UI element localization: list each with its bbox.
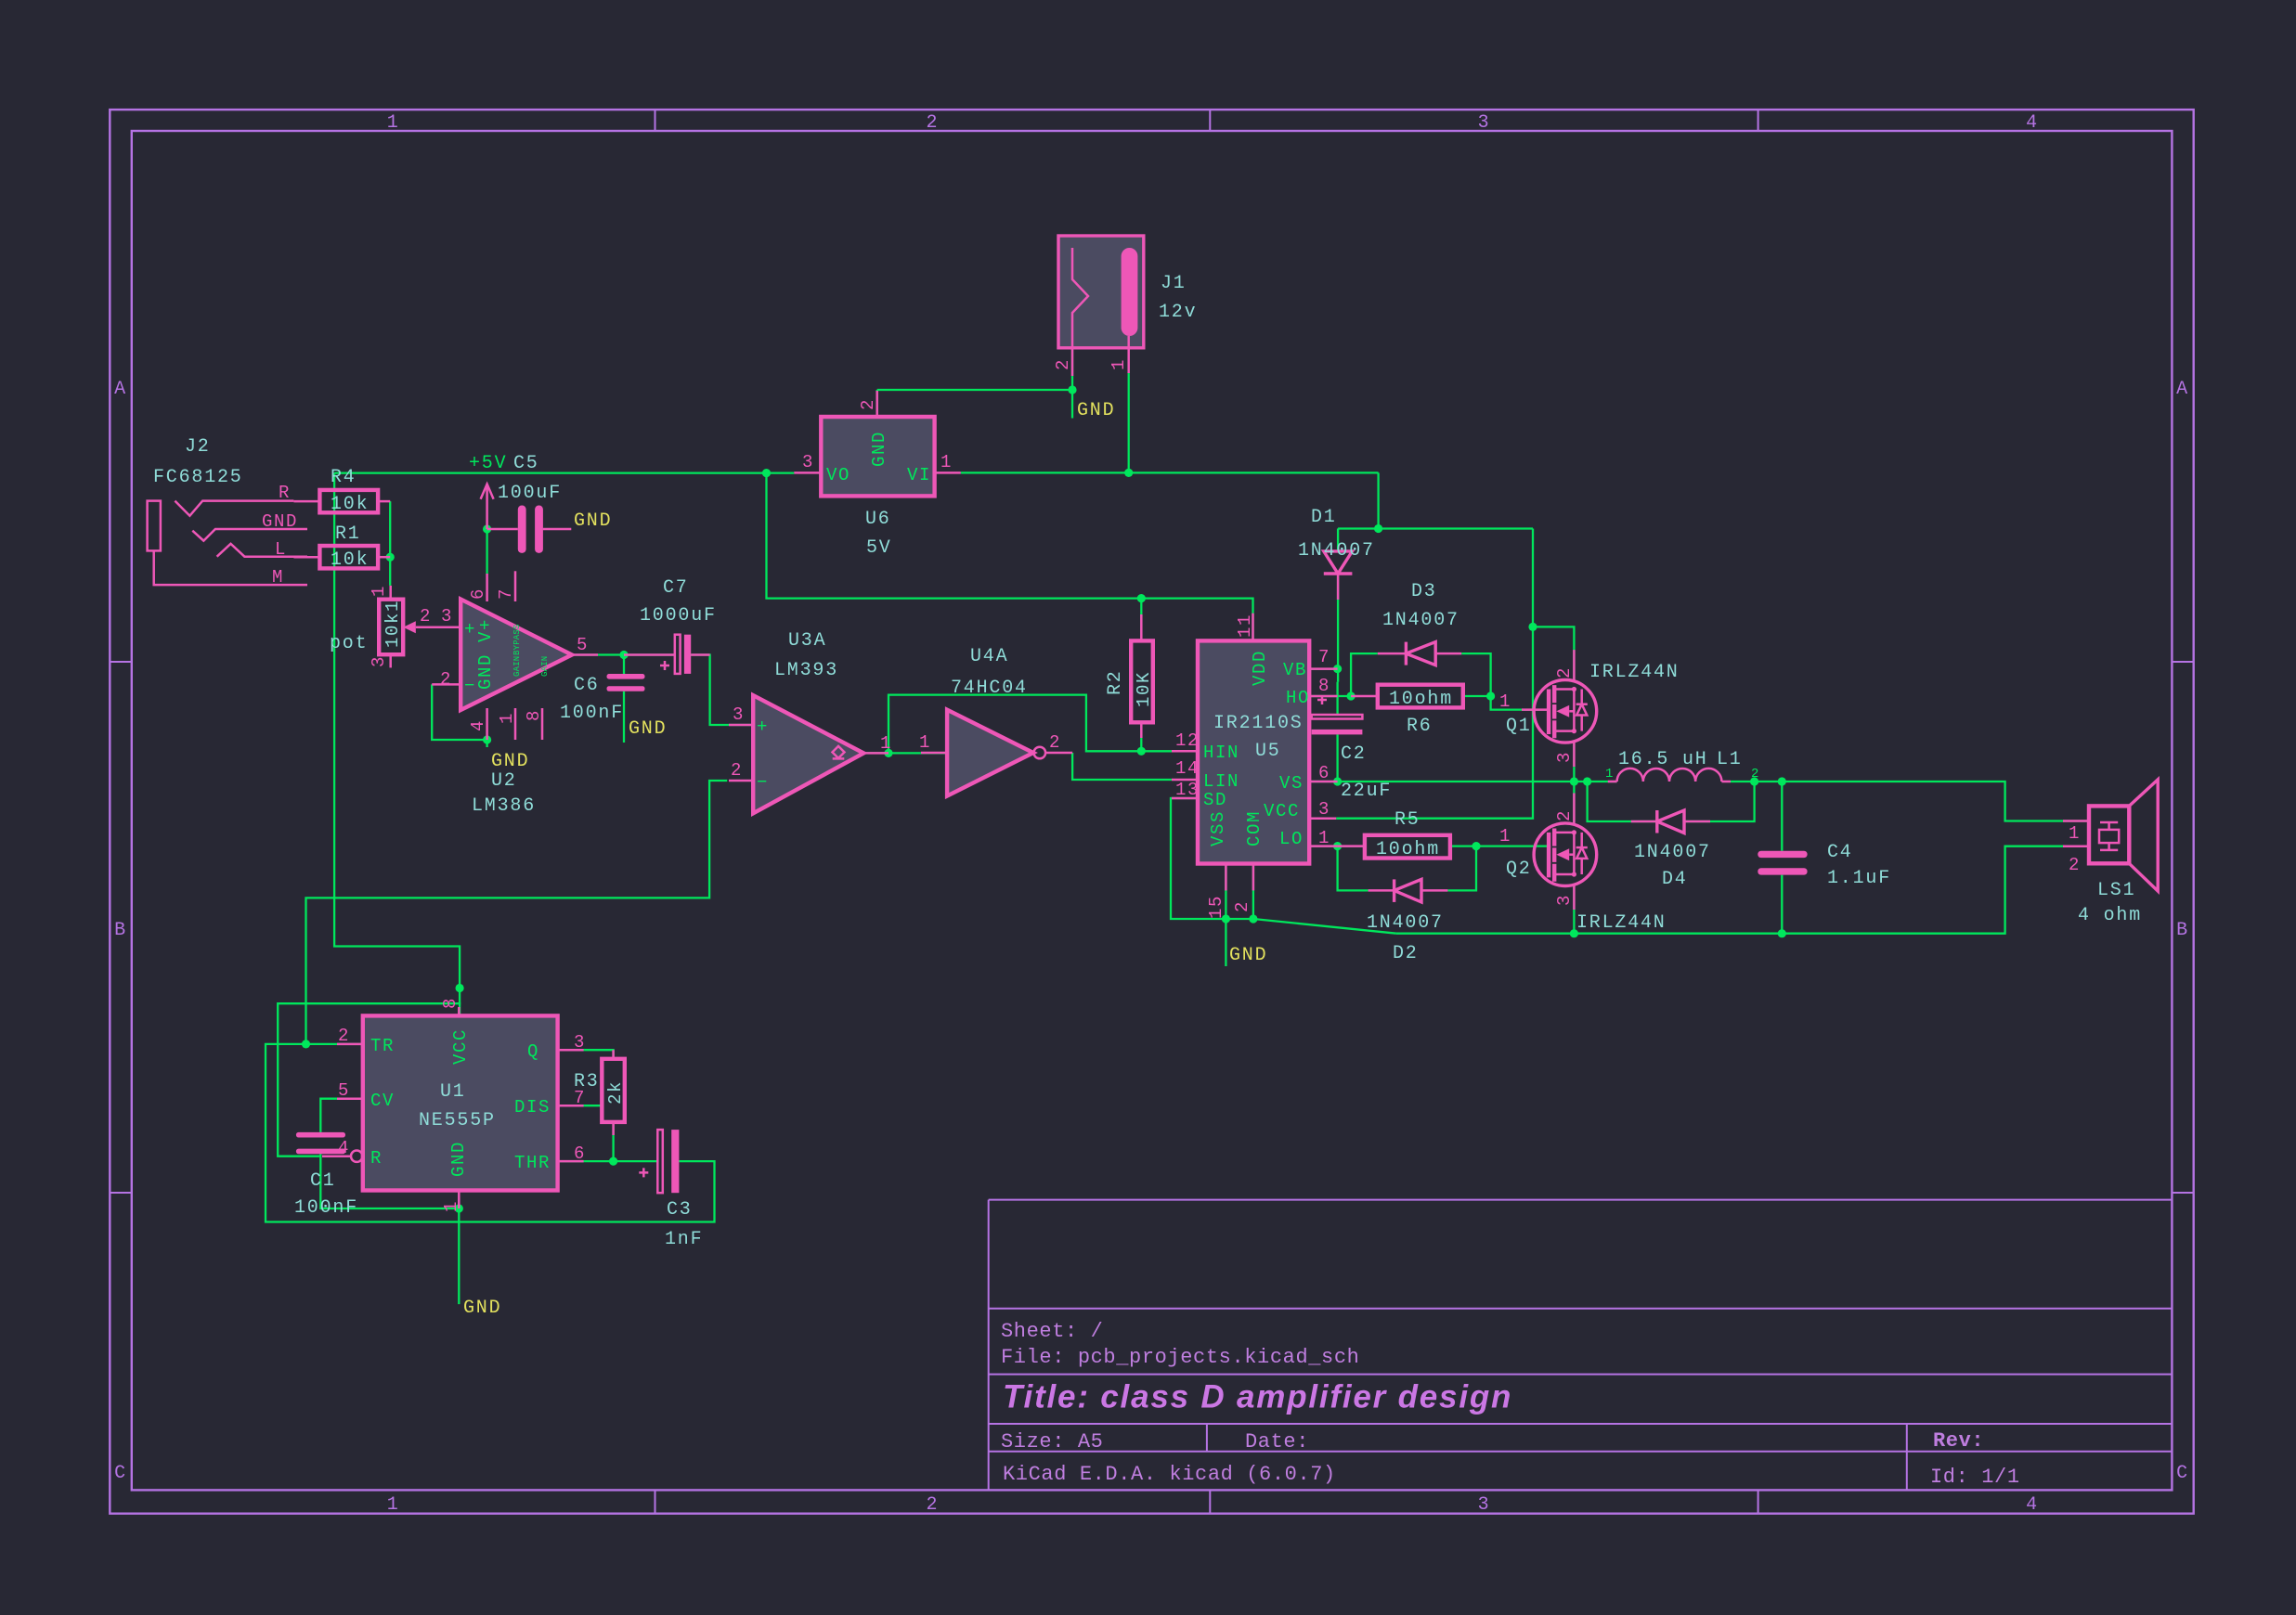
wire SD down to ground rail <box>1171 798 1253 919</box>
svg-text:8: 8 <box>1318 676 1330 696</box>
svg-text:1N4007: 1N4007 <box>1367 912 1444 934</box>
svg-text:1: 1 <box>2069 823 2081 844</box>
svg-text:2: 2 <box>420 606 432 627</box>
svg-text:BYPASS: BYPASS <box>512 624 522 655</box>
title block lines <box>989 1200 2173 1491</box>
svg-text:Rev:: Rev: <box>1933 1429 1984 1453</box>
wire C6 bottom stub <box>623 691 625 743</box>
svg-text:D3: D3 <box>1411 581 1437 602</box>
svg-text:7: 7 <box>496 588 516 600</box>
svg-text:pot: pot <box>330 633 368 654</box>
svg-text:2: 2 <box>1053 358 1073 370</box>
svg-text:2: 2 <box>731 760 743 781</box>
capacitor C5 <box>487 506 572 553</box>
svg-text:J2: J2 <box>185 436 211 458</box>
svg-text:U1: U1 <box>440 1081 466 1103</box>
junction J1 pin1 VI <box>1124 469 1133 477</box>
svg-text:D2: D2 <box>1393 943 1419 964</box>
svg-text:U3A: U3A <box>788 630 826 652</box>
svg-text:11: 11 <box>1235 614 1255 638</box>
junction R2 top <box>1137 594 1146 602</box>
svg-text:100nF: 100nF <box>560 703 624 724</box>
svg-text:Q1: Q1 <box>1506 716 1532 737</box>
svg-text:VB: VB <box>1283 660 1307 680</box>
wire U2 pin2 loop to GND <box>432 684 486 747</box>
wire C4 bottom stub <box>1781 875 1783 934</box>
wire D2 right up to gate node <box>1447 846 1476 891</box>
svg-text:−: − <box>757 772 769 793</box>
svg-text:2: 2 <box>1232 900 1252 912</box>
svg-text:3: 3 <box>574 1032 586 1053</box>
svg-text:U6: U6 <box>865 509 891 530</box>
wire THR pin to C3 <box>558 1160 658 1162</box>
svg-text:1N4007: 1N4007 <box>1298 540 1375 562</box>
svg-text:1: 1 <box>441 1200 461 1212</box>
wire 12V corner down <box>1377 472 1379 528</box>
junction VSS ground <box>1222 914 1230 923</box>
svg-text:10K: 10K <box>1134 671 1154 707</box>
svg-text:1: 1 <box>940 452 953 472</box>
junction +5V C5 <box>483 524 491 533</box>
svg-text:3: 3 <box>369 655 389 667</box>
svg-text:HO: HO <box>1286 688 1310 708</box>
svg-text:U4A: U4A <box>970 646 1008 667</box>
svg-text:TR: TR <box>370 1036 395 1056</box>
svg-text:2: 2 <box>2069 855 2081 875</box>
wire 12V to Q1 drain <box>1533 627 1574 679</box>
svg-text:R2: R2 <box>1105 669 1126 695</box>
svg-text:C4: C4 <box>1827 842 1853 863</box>
wire gate node to Q1 gate <box>1491 696 1550 710</box>
svg-text:GAIN: GAIN <box>540 656 550 677</box>
resistor R5 <box>1338 835 1450 860</box>
wire D1 top stub <box>1337 529 1339 551</box>
diode D3 1N4007 <box>1378 642 1461 665</box>
wire U6 GND pin stub <box>876 390 878 417</box>
svg-text:7: 7 <box>1318 647 1330 667</box>
svg-text:GND: GND <box>475 653 496 690</box>
svg-text:GND: GND <box>448 1141 469 1177</box>
junction 12V corner <box>1374 524 1382 533</box>
wire VCC pin stub <box>1309 818 1336 820</box>
wire C2 bottom stub <box>1336 734 1338 782</box>
svg-text:1: 1 <box>387 1494 400 1516</box>
svg-text:3: 3 <box>1318 799 1330 820</box>
svg-text:C2: C2 <box>1341 743 1367 765</box>
svg-text:L: L <box>275 539 287 560</box>
wire VI to J1 and 12V corner <box>961 472 1379 473</box>
svg-text:10k: 10k <box>331 549 369 571</box>
wire +5V rail down to U1 VCC <box>334 473 460 1017</box>
wire VS to D4 <box>1588 782 1657 821</box>
svg-text:C7: C7 <box>663 577 689 599</box>
svg-text:D4: D4 <box>1662 869 1688 890</box>
wire LO pin to R5 <box>1309 845 1365 846</box>
wire SD pin stub <box>1171 797 1198 799</box>
svg-text:3: 3 <box>802 452 814 472</box>
junction VS D4 <box>1583 777 1591 785</box>
junction C4 bottom rail <box>1778 929 1786 937</box>
svg-text:3: 3 <box>1554 751 1575 763</box>
svg-text:4: 4 <box>2026 1494 2039 1516</box>
border frame inner <box>132 131 2173 1490</box>
wire R2 bottom to HIN <box>1140 722 1142 751</box>
timer U1 NE555P <box>322 1007 584 1208</box>
svg-text:6: 6 <box>574 1143 586 1164</box>
svg-text:GND: GND <box>463 1298 501 1319</box>
svg-text:COM: COM <box>1244 810 1265 846</box>
svg-text:5V: 5V <box>866 537 892 559</box>
wire D3 right down to gate node <box>1461 653 1490 696</box>
svg-text:2: 2 <box>1554 809 1575 821</box>
frame column ticks bottom <box>655 1490 1758 1513</box>
svg-text:CV: CV <box>370 1091 395 1111</box>
svg-text:1: 1 <box>1499 691 1511 712</box>
svg-text:GND: GND <box>1229 945 1267 966</box>
svg-text:14: 14 <box>1175 758 1200 779</box>
wire U4A out to LIN <box>1072 753 1172 780</box>
resistor R6 <box>1351 685 1463 710</box>
regulator U6 5V <box>794 391 961 496</box>
svg-text:1: 1 <box>369 585 389 597</box>
svg-text:J1: J1 <box>1161 273 1187 294</box>
svg-text:R4: R4 <box>331 467 357 488</box>
wire C1 bottom to GND rail <box>320 1154 459 1208</box>
svg-text:GND: GND <box>491 751 529 772</box>
svg-text:LM386: LM386 <box>472 795 536 817</box>
svg-text:C1: C1 <box>310 1170 336 1192</box>
wire VSS pin down <box>1225 864 1226 920</box>
svg-text:6: 6 <box>468 588 488 600</box>
wire TR to C3 right <box>266 1044 715 1222</box>
svg-text:1: 1 <box>919 732 931 753</box>
svg-text:LM393: LM393 <box>774 660 838 681</box>
wire Q2 source down <box>1573 886 1575 934</box>
svg-text:R: R <box>279 483 291 503</box>
svg-text:5: 5 <box>338 1080 350 1101</box>
diode D4 1N4007 <box>1631 810 1710 833</box>
svg-text:2: 2 <box>1751 767 1759 782</box>
power symbol +5V <box>481 484 494 530</box>
svg-text:10ohm: 10ohm <box>1389 689 1453 710</box>
svg-text:VS: VS <box>1279 773 1304 794</box>
svg-text:1000uF: 1000uF <box>640 605 717 627</box>
svg-text:THR: THR <box>514 1153 551 1173</box>
junction L1 out C4 <box>1778 777 1786 785</box>
svg-text:10ohm: 10ohm <box>1376 839 1440 860</box>
svg-text:Sheet: /: Sheet: / <box>1001 1320 1103 1343</box>
svg-text:5: 5 <box>577 635 589 655</box>
svg-text:IRLZ44N: IRLZ44N <box>1589 662 1680 683</box>
wire +5V to U2 pin6 <box>486 529 487 574</box>
wire D4 right to L1 out <box>1684 782 1755 821</box>
svg-text:1: 1 <box>387 112 400 134</box>
svg-text:+5V: +5V <box>469 453 507 474</box>
wire VB pin stub <box>1309 667 1337 669</box>
svg-text:4: 4 <box>338 1138 350 1158</box>
svg-text:C6: C6 <box>574 675 600 696</box>
diode D1 1N4007 <box>1324 551 1353 600</box>
wire +5V rail to VO <box>334 472 794 473</box>
wire HO pin to R6 <box>1309 695 1351 697</box>
svg-text:R5: R5 <box>1394 809 1420 831</box>
svg-text:3: 3 <box>441 606 453 627</box>
wire U1 GND label stub <box>458 1208 460 1304</box>
svg-text:1: 1 <box>1109 358 1129 370</box>
svg-text:GAIN: GAIN <box>512 656 522 677</box>
junction L1 out D4 <box>1750 777 1758 785</box>
svg-text:Date:: Date: <box>1245 1430 1309 1453</box>
svg-text:Title: class D amplifier desig: Title: class D amplifier design <box>1003 1379 1512 1415</box>
wire D1 bottom to VB C2 <box>1337 574 1339 682</box>
svg-text:R: R <box>370 1148 383 1169</box>
wire Q out to R3 <box>558 1050 614 1059</box>
capacitor C6 <box>607 674 645 691</box>
wire DIS pin stub <box>583 1105 602 1106</box>
svg-text:2: 2 <box>858 398 878 410</box>
svg-text:Q2: Q2 <box>1506 859 1532 880</box>
speaker LS1 <box>2063 780 2158 891</box>
wire R5 right to Q2 gate <box>1450 845 1549 846</box>
capacitor C3 polarized <box>639 1130 679 1193</box>
comparator U3A LM393 <box>729 695 889 813</box>
svg-text:3: 3 <box>1554 894 1575 906</box>
svg-text:1: 1 <box>1499 826 1511 846</box>
svg-text:GND: GND <box>574 510 612 532</box>
wire U1 GND pin stub <box>458 1191 460 1209</box>
junction U3A out <box>884 749 892 757</box>
svg-text:1N4007: 1N4007 <box>1382 610 1459 631</box>
junction Q2 source rail <box>1570 929 1578 937</box>
junction U2 pin4 GND <box>483 735 491 743</box>
svg-text:File: pcb_projects.kicad_sch: File: pcb_projects.kicad_sch <box>1001 1346 1359 1369</box>
driver U5 IR2110S <box>1172 614 1338 891</box>
wire C6 top stub <box>623 655 625 675</box>
svg-text:IR2110S: IR2110S <box>1213 713 1304 734</box>
svg-text:3: 3 <box>733 704 745 725</box>
wire C2 top stub <box>1336 682 1338 715</box>
frame row ticks right <box>2172 662 2193 1193</box>
junction R2 bottom HIN <box>1137 747 1146 756</box>
junction HO R6 D3 <box>1347 691 1356 700</box>
svg-text:1nF: 1nF <box>665 1229 703 1250</box>
svg-text:1: 1 <box>880 733 892 754</box>
svg-text:1N4007: 1N4007 <box>1634 842 1711 863</box>
svg-text:VCC: VCC <box>450 1028 471 1065</box>
svg-text:1: 1 <box>1605 767 1614 782</box>
wire L1 out rail to speaker pin1 <box>1731 782 2089 821</box>
capacitor C7 polarized <box>624 635 710 674</box>
svg-text:LIN: LIN <box>1203 771 1239 792</box>
wire ground rail diagonal <box>1253 919 1396 934</box>
junction J1 pin2 GND <box>1068 385 1076 394</box>
svg-text:8: 8 <box>524 709 544 721</box>
svg-text:VCC: VCC <box>1264 801 1300 821</box>
svg-text:12v: 12v <box>1159 302 1197 323</box>
svg-text:22uF: 22uF <box>1341 781 1392 802</box>
svg-text:3: 3 <box>1478 1494 1491 1516</box>
svg-text:LS1: LS1 <box>2097 880 2135 901</box>
svg-text:VDD: VDD <box>1250 650 1270 686</box>
wire C7 to U3A pin3 <box>691 655 753 726</box>
junction VB D1 C2 <box>1333 665 1342 673</box>
svg-text:6: 6 <box>1318 763 1330 783</box>
wire R3 bottom to THR <box>612 1122 614 1161</box>
svg-text:2: 2 <box>1049 732 1061 753</box>
junction U1 GND C1 <box>455 1204 463 1212</box>
wire U3A out to U4A in <box>863 752 947 754</box>
connector J1 barrel jack <box>1058 236 1144 376</box>
svg-text:15: 15 <box>1206 895 1226 919</box>
svg-text:1: 1 <box>1318 828 1330 848</box>
frame column ticks top <box>655 110 1758 131</box>
svg-text:A: A <box>2176 379 2189 400</box>
svg-text:C: C <box>114 1463 127 1484</box>
svg-text:4: 4 <box>468 719 488 731</box>
junction U1 VCC <box>456 984 464 992</box>
svg-text:FC68125: FC68125 <box>153 467 243 488</box>
svg-text:Size: A5: Size: A5 <box>1001 1430 1103 1453</box>
svg-text:HIN: HIN <box>1203 743 1239 763</box>
svg-text:A: A <box>114 379 127 400</box>
svg-text:100uF: 100uF <box>498 483 562 504</box>
svg-text:16.5 uH: 16.5 uH <box>1618 749 1708 770</box>
svg-text:13: 13 <box>1175 780 1200 800</box>
svg-text:VI: VI <box>907 465 931 485</box>
svg-text:2: 2 <box>926 112 939 134</box>
resistor R4 <box>293 490 390 515</box>
svg-text:GND: GND <box>262 511 298 532</box>
svg-text:74HC04: 74HC04 <box>951 678 1028 699</box>
svg-text:IRLZ44N: IRLZ44N <box>1576 912 1667 934</box>
wire Q2 drain <box>1573 782 1575 823</box>
svg-text:GND: GND <box>1077 400 1115 421</box>
svg-text:C5: C5 <box>513 453 539 474</box>
diode D2 1N4007 <box>1369 879 1448 902</box>
svg-text:LO: LO <box>1279 829 1304 849</box>
svg-text:R1: R1 <box>335 523 361 545</box>
wire J1 GND label stub <box>1071 390 1073 419</box>
svg-text:NE555P: NE555P <box>419 1110 496 1131</box>
wire 12V down to VCC <box>1336 529 1533 819</box>
svg-text:1: 1 <box>497 712 517 724</box>
junction R6 D3 gate <box>1486 691 1495 700</box>
resistor R2 <box>1131 614 1154 738</box>
junction R1 right <box>386 553 395 562</box>
capacitor C4 <box>1758 851 1807 875</box>
svg-text:1.1uF: 1.1uF <box>1827 868 1891 889</box>
op-amp U2 LM386 <box>432 571 598 740</box>
wire VO down and over to VDD rail <box>767 473 1253 641</box>
svg-text:V+: V+ <box>475 618 496 642</box>
wire C4 top stub <box>1781 782 1783 851</box>
svg-text:2k: 2k <box>605 1080 626 1105</box>
svg-text:VO: VO <box>826 465 850 485</box>
wire CV to C1 <box>320 1099 337 1132</box>
resistor R3 <box>602 1050 626 1135</box>
junction 12V Q1 drain <box>1528 623 1537 631</box>
junction U1 TR <box>302 1040 310 1048</box>
wire R6 right to gate node <box>1463 695 1491 697</box>
wire J1 pin2 stub <box>1071 348 1073 390</box>
inverter U4A 74HC04 <box>921 710 1072 796</box>
svg-text:R6: R6 <box>1407 716 1433 737</box>
potentiometer pot 10k1 <box>379 586 460 668</box>
svg-text:B: B <box>114 920 127 941</box>
svg-text:VSS: VSS <box>1208 810 1228 846</box>
svg-text:100nF: 100nF <box>294 1197 358 1219</box>
wire U3A pin2 to U1 TR <box>306 781 728 1044</box>
wire ground rail to speaker pin2 <box>1396 846 2089 934</box>
wire U2 out to C7 <box>572 653 675 655</box>
wire R2 top stub <box>1140 599 1142 641</box>
wire COM pin down <box>1252 864 1254 920</box>
svg-text:SD: SD <box>1203 790 1227 810</box>
svg-text:GND: GND <box>869 431 889 467</box>
junction VS C2 <box>1333 777 1342 785</box>
svg-text:2: 2 <box>1554 666 1575 678</box>
junction R5 D2 gate <box>1472 842 1480 850</box>
wire 12V rail <box>1338 527 1533 529</box>
wire VS rail <box>1309 781 1616 782</box>
svg-text:DIS: DIS <box>514 1097 551 1118</box>
svg-text:U2: U2 <box>491 770 517 792</box>
wire U5 GND stub <box>1225 919 1226 966</box>
frame row ticks left <box>110 662 132 1193</box>
inductor L1 <box>1608 769 1731 782</box>
resistor R1 <box>293 546 390 571</box>
svg-text:4: 4 <box>2026 112 2039 134</box>
wire U1 reset to VCC <box>278 1003 460 1156</box>
svg-text:D1: D1 <box>1311 507 1337 528</box>
svg-text:2: 2 <box>926 1494 939 1516</box>
svg-text:3: 3 <box>1478 112 1491 134</box>
svg-text:4 ohm: 4 ohm <box>2078 905 2142 926</box>
svg-text:R3: R3 <box>574 1071 600 1092</box>
junction U2 out C6 <box>619 651 628 659</box>
svg-text:Id: 1/1: Id: 1/1 <box>1930 1466 2020 1489</box>
svg-text:2: 2 <box>338 1026 350 1046</box>
svg-text:KiCad E.D.A. kicad (6.0.7): KiCad E.D.A. kicad (6.0.7) <box>1003 1463 1336 1486</box>
wire J1 pin1 down <box>1128 373 1130 472</box>
junction THR R3 C3 <box>609 1157 617 1166</box>
svg-text:2: 2 <box>440 669 452 690</box>
svg-text:+: + <box>757 717 769 737</box>
svg-text:10k1: 10k1 <box>383 600 403 648</box>
wire U3A out up over to HIN <box>889 695 1172 754</box>
wire TR junction to box <box>306 1043 363 1045</box>
junction VO rail <box>762 469 771 477</box>
junction VS Q1 Q2 <box>1570 777 1578 785</box>
svg-text:L1: L1 <box>1717 749 1743 770</box>
svg-text:M: M <box>272 567 284 588</box>
svg-text:12: 12 <box>1175 730 1200 751</box>
wire Q1 source <box>1573 743 1575 782</box>
capacitor C2 polarized <box>1312 695 1363 734</box>
svg-text:10k: 10k <box>331 494 369 515</box>
svg-text:C: C <box>2176 1463 2189 1484</box>
wire LO down to D2 <box>1338 846 1369 891</box>
junction COM ground <box>1249 914 1257 923</box>
junction LO R5 D2 <box>1333 842 1342 850</box>
capacitor C1 <box>296 1132 345 1154</box>
transistor Q2 IRLZ44N <box>1534 794 1597 911</box>
svg-text:8: 8 <box>440 997 460 1009</box>
svg-text:U5: U5 <box>1255 741 1281 762</box>
svg-text:Q: Q <box>527 1041 539 1062</box>
wire R4 right to pot <box>389 501 391 586</box>
border frame outer <box>110 110 2193 1514</box>
